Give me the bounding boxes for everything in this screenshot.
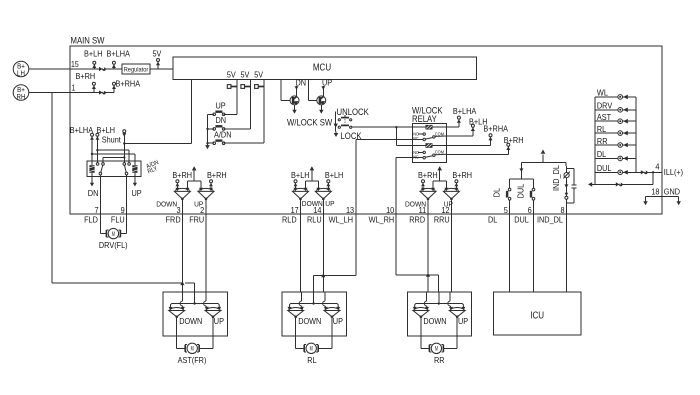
svg-text:DN: DN <box>296 78 307 88</box>
svg-text:DL: DL <box>488 214 498 224</box>
svg-text:DL: DL <box>492 188 502 198</box>
svg-text:DUL: DUL <box>514 214 529 224</box>
svg-text:UP: UP <box>214 316 224 326</box>
svg-text:M: M <box>435 347 438 353</box>
svg-text:IND_DL: IND_DL <box>551 165 561 191</box>
svg-text:ILL(+): ILL(+) <box>664 167 683 177</box>
svg-text:4: 4 <box>655 162 659 172</box>
svg-text:FLU: FLU <box>111 214 125 224</box>
svg-text:B+LHA: B+LHA <box>107 49 131 59</box>
svg-text:COM: COM <box>435 131 444 136</box>
svg-text:5V: 5V <box>241 69 250 79</box>
svg-text:UP: UP <box>132 188 142 198</box>
svg-text:RRD: RRD <box>409 214 425 224</box>
svg-text:5: 5 <box>504 205 508 215</box>
svg-text:DN: DN <box>88 188 99 198</box>
svg-text:DRV: DRV <box>597 101 613 111</box>
svg-text:UP: UP <box>325 199 334 208</box>
svg-text:DOWN: DOWN <box>298 316 321 326</box>
svg-text:B+RH: B+RH <box>452 170 472 180</box>
svg-text:DUL: DUL <box>516 184 526 199</box>
svg-text:UNLOCK: UNLOCK <box>337 107 369 117</box>
svg-text:B+LH: B+LH <box>84 49 103 59</box>
svg-text:COM: COM <box>435 150 444 155</box>
svg-text:DOWN: DOWN <box>423 316 446 326</box>
svg-text:UP: UP <box>458 316 468 326</box>
svg-text:Regulator: Regulator <box>124 67 149 74</box>
svg-text:MAIN SW: MAIN SW <box>71 36 105 46</box>
svg-text:UP: UP <box>322 78 332 88</box>
svg-text:GND: GND <box>664 187 680 197</box>
svg-text:DOWN: DOWN <box>179 316 202 326</box>
svg-text:FRD: FRD <box>166 214 181 224</box>
svg-text:B+RH: B+RH <box>172 170 192 180</box>
svg-text:RR: RR <box>434 355 445 365</box>
svg-text:NC: NC <box>413 136 419 141</box>
svg-text:B+LHA: B+LHA <box>70 125 94 135</box>
svg-text:Shunt: Shunt <box>102 134 122 144</box>
svg-text:5V: 5V <box>153 49 162 59</box>
svg-text:UP: UP <box>216 101 226 111</box>
svg-text:NC: NC <box>413 154 419 159</box>
svg-text:DRV(FL): DRV(FL) <box>99 240 128 250</box>
svg-text:MCU: MCU <box>313 63 331 74</box>
svg-text:1: 1 <box>72 84 76 93</box>
svg-text:UP: UP <box>333 316 343 326</box>
svg-text:15: 15 <box>71 60 79 69</box>
svg-text:5V: 5V <box>254 69 263 79</box>
svg-text:IND_DL: IND_DL <box>537 214 563 224</box>
svg-text:DL: DL <box>597 149 607 159</box>
svg-text:M: M <box>112 232 115 238</box>
svg-text:LH: LH <box>17 68 25 77</box>
svg-text:B+RH: B+RH <box>207 170 227 180</box>
svg-text:W/LOCK SW: W/LOCK SW <box>287 118 333 128</box>
svg-text:AST: AST <box>597 112 611 122</box>
svg-text:ICU: ICU <box>530 311 544 322</box>
svg-text:B+LH: B+LH <box>325 170 344 180</box>
svg-text:B+RHA: B+RHA <box>116 79 141 89</box>
svg-text:DUL: DUL <box>597 163 612 173</box>
svg-text:DOWN: DOWN <box>156 199 177 208</box>
svg-text:18: 18 <box>651 187 659 197</box>
svg-text:RL: RL <box>307 355 317 365</box>
svg-text:B+RH: B+RH <box>504 135 524 145</box>
svg-text:B+LH: B+LH <box>291 170 310 180</box>
svg-text:FLD: FLD <box>84 214 98 224</box>
svg-text:WL_LH: WL_LH <box>329 214 353 224</box>
svg-text:M: M <box>310 347 313 353</box>
svg-text:RL: RL <box>597 124 607 134</box>
svg-text:B+RHA: B+RHA <box>483 124 508 134</box>
svg-text:RLD: RLD <box>282 214 297 224</box>
svg-text:A/DN: A/DN <box>214 129 232 139</box>
svg-text:RH: RH <box>17 92 26 101</box>
svg-text:B+RH: B+RH <box>76 71 96 81</box>
svg-text:5V: 5V <box>227 69 236 79</box>
svg-text:AST(FR): AST(FR) <box>178 355 207 365</box>
svg-text:WL_RH: WL_RH <box>369 214 395 224</box>
svg-text:RR: RR <box>597 136 608 146</box>
svg-text:DN: DN <box>216 115 227 125</box>
svg-text:M: M <box>191 347 194 353</box>
svg-text:RELAY: RELAY <box>412 114 437 124</box>
svg-text:RLU: RLU <box>307 214 322 224</box>
svg-text:B+LHA: B+LHA <box>453 106 477 116</box>
svg-text:RRU: RRU <box>434 214 450 224</box>
svg-text:WL: WL <box>597 88 608 98</box>
svg-text:FRU: FRU <box>189 214 204 224</box>
svg-text:B+RH: B+RH <box>418 170 438 180</box>
